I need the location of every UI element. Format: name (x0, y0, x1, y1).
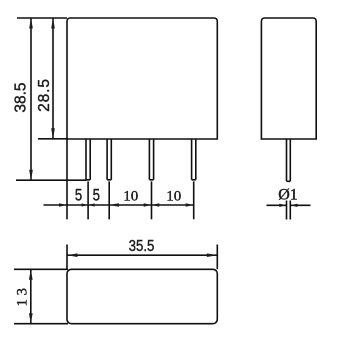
top extension line (17, 17, 67, 19)
svg-text:10: 10 (166, 189, 181, 205)
label 10 (first) (123, 189, 138, 205)
label 28.5 (36, 78, 53, 112)
dimension line 38.5 (29, 18, 33, 180)
pin diameter dimension line (267, 204, 311, 207)
label 38.5 (13, 83, 30, 113)
label diameter 1 (278, 186, 298, 203)
svg-text:28.5: 28.5 (36, 78, 53, 112)
pin 3 (front view) (149, 139, 153, 180)
svg-text:10: 10 (123, 189, 138, 205)
extension line pin 3 center (151, 181, 153, 219)
extension line at pin bottom (38.5 dim) (16, 179, 86, 181)
pin 2 (front view) (107, 139, 111, 180)
bottom view body outline (67, 269, 217, 323)
label 10 (second) (166, 189, 181, 205)
label 13 (14, 285, 30, 307)
extension lines 35.5 (67, 245, 217, 270)
side view pin (287, 139, 291, 181)
extension lines 13 (14, 269, 68, 323)
extension lines pin diameter (287, 201, 291, 220)
extension line pin 2 center (108, 181, 110, 219)
label 35.5 (129, 238, 155, 255)
dimension line 13 (29, 269, 33, 323)
svg-text:5: 5 (93, 186, 100, 205)
dimension line 28.5 (51, 18, 55, 139)
label 5 (first) (75, 186, 82, 205)
label 5 (second) (93, 186, 100, 205)
extension line pin 1 center (87, 181, 89, 219)
svg-text:38.5: 38.5 (13, 83, 30, 113)
svg-text:13: 13 (14, 285, 30, 307)
svg-text:Ø1: Ø1 (278, 186, 298, 203)
pin spacing dimension line (44, 203, 195, 206)
extension line at body bottom (28.5 dim) (38, 138, 68, 140)
pin 4 (front view) (192, 139, 196, 180)
extension line pin 4 center (193, 181, 195, 219)
dimension line 35.5 (67, 253, 217, 257)
side view body outline (261, 18, 316, 139)
front view body outline (67, 18, 217, 139)
svg-text:5: 5 (75, 186, 82, 205)
pin 1 (front view) (86, 139, 90, 180)
extension line body left edge down (66, 139, 68, 219)
svg-text:35.5: 35.5 (129, 238, 155, 255)
